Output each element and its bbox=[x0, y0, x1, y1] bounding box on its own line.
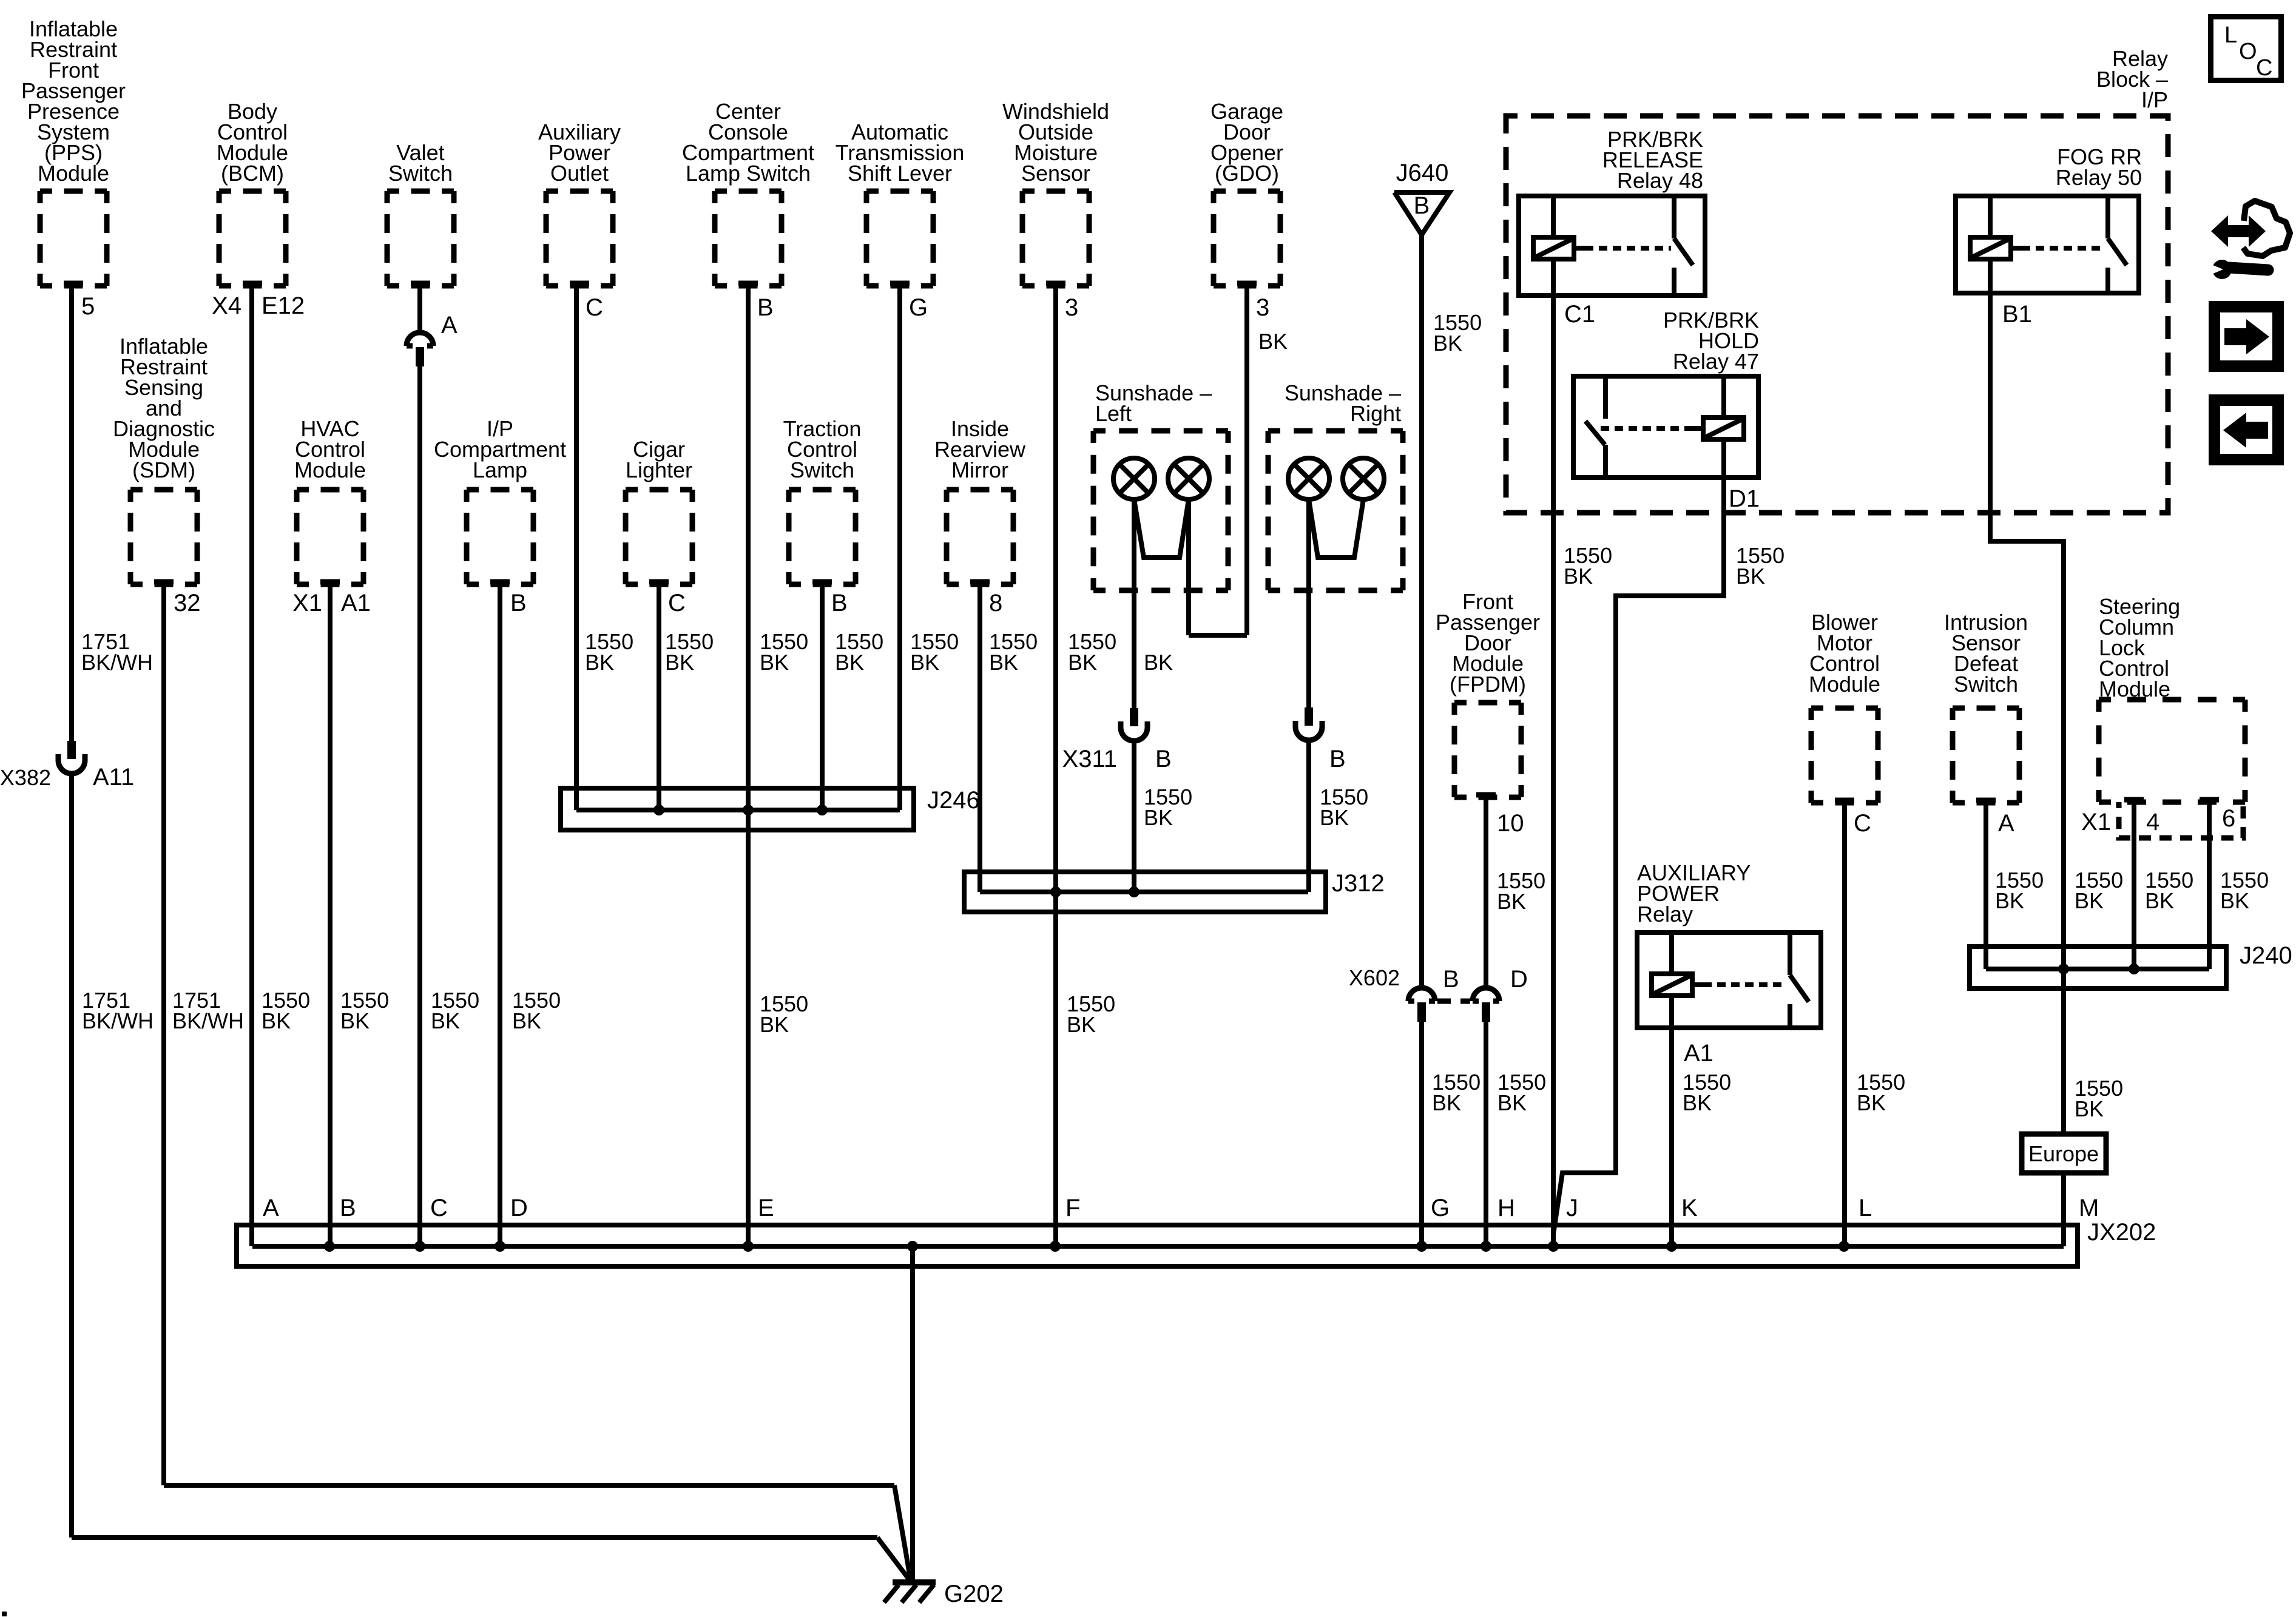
svg-text:X1: X1 bbox=[292, 590, 322, 616]
svg-text:BK: BK bbox=[340, 1008, 370, 1033]
svg-text:X1: X1 bbox=[2081, 809, 2111, 836]
svg-text:BK: BK bbox=[1736, 564, 1765, 589]
svg-text:L: L bbox=[1859, 1195, 1872, 1221]
svg-text:X382: X382 bbox=[0, 765, 51, 790]
svg-text:Relay: Relay bbox=[1637, 902, 1693, 927]
svg-text:Relay 48: Relay 48 bbox=[1617, 168, 1703, 193]
svg-text:BK: BK bbox=[431, 1008, 460, 1033]
svg-text:Lighter: Lighter bbox=[626, 457, 692, 482]
svg-text:O: O bbox=[2239, 39, 2257, 64]
svg-text:BK: BK bbox=[1144, 650, 1173, 675]
svg-text:G: G bbox=[909, 294, 928, 321]
svg-text:BK: BK bbox=[665, 650, 694, 675]
svg-text:5: 5 bbox=[81, 293, 95, 320]
svg-text:A: A bbox=[263, 1195, 279, 1221]
svg-text:Switch: Switch bbox=[790, 457, 854, 482]
svg-text:Switch: Switch bbox=[1954, 672, 2018, 697]
svg-text:6: 6 bbox=[2222, 805, 2235, 832]
svg-text:C: C bbox=[2256, 55, 2272, 81]
svg-text:B: B bbox=[1443, 966, 1459, 993]
svg-text:Lamp Switch: Lamp Switch bbox=[686, 161, 811, 186]
svg-text:BK: BK bbox=[1432, 1090, 1461, 1115]
svg-text:E12: E12 bbox=[262, 292, 305, 319]
svg-text:G202: G202 bbox=[944, 1581, 1004, 1607]
svg-text:(BCM): (BCM) bbox=[221, 161, 284, 186]
svg-text:B: B bbox=[831, 590, 848, 616]
svg-text:B: B bbox=[340, 1195, 356, 1221]
svg-text:BK/WH: BK/WH bbox=[82, 1008, 154, 1033]
svg-text:B: B bbox=[1155, 746, 1172, 772]
svg-text:BK: BK bbox=[1067, 1012, 1096, 1037]
svg-text:(GDO): (GDO) bbox=[1215, 161, 1279, 186]
svg-text:C: C bbox=[1854, 810, 1871, 837]
svg-text:Left: Left bbox=[1095, 401, 1132, 426]
svg-text:10: 10 bbox=[1497, 810, 1524, 837]
svg-text:Module: Module bbox=[38, 161, 109, 186]
svg-text:BK: BK bbox=[1857, 1090, 1886, 1115]
svg-text:Lamp: Lamp bbox=[473, 457, 527, 482]
svg-text:BK: BK bbox=[1995, 888, 2024, 913]
svg-text:C: C bbox=[668, 590, 686, 616]
svg-text:X602: X602 bbox=[1349, 965, 1400, 990]
svg-text:Outlet: Outlet bbox=[550, 161, 609, 186]
svg-text:JX202: JX202 bbox=[2087, 1219, 2156, 1246]
svg-text:J246: J246 bbox=[927, 787, 980, 814]
svg-text:J: J bbox=[1566, 1195, 1578, 1221]
svg-text:Switch: Switch bbox=[388, 161, 453, 186]
svg-text:X311: X311 bbox=[1062, 746, 1117, 772]
svg-text:G: G bbox=[1431, 1195, 1450, 1221]
svg-text:Module: Module bbox=[294, 457, 366, 482]
svg-text:Relay 47: Relay 47 bbox=[1673, 349, 1759, 374]
svg-text:BK: BK bbox=[2075, 888, 2104, 913]
svg-text:B: B bbox=[510, 590, 527, 616]
svg-text:BK: BK bbox=[989, 650, 1018, 675]
svg-text:C: C bbox=[430, 1195, 448, 1221]
svg-text:Mirror: Mirror bbox=[951, 457, 1008, 482]
svg-text:(FPDM): (FPDM) bbox=[1450, 672, 1526, 697]
svg-text:BK: BK bbox=[585, 650, 614, 675]
svg-text:C1: C1 bbox=[1564, 301, 1595, 328]
svg-text:BK: BK bbox=[835, 650, 864, 675]
svg-text:BK: BK bbox=[262, 1008, 291, 1033]
svg-text:X4: X4 bbox=[212, 292, 241, 319]
svg-text:BK: BK bbox=[2145, 888, 2174, 913]
svg-text:B: B bbox=[1329, 746, 1346, 772]
svg-text:B: B bbox=[757, 294, 774, 321]
svg-text:Sensor: Sensor bbox=[1021, 161, 1090, 186]
svg-text:BK: BK bbox=[2220, 888, 2249, 913]
svg-text:BK: BK bbox=[1320, 805, 1349, 830]
svg-text:A: A bbox=[1998, 810, 2014, 837]
svg-text:D: D bbox=[510, 1195, 528, 1221]
svg-text:BK: BK bbox=[1144, 805, 1173, 830]
svg-text:BK: BK bbox=[1497, 1090, 1527, 1115]
svg-text:BK: BK bbox=[1433, 331, 1462, 356]
svg-text:BK: BK bbox=[1683, 1090, 1712, 1115]
svg-text:Module: Module bbox=[2099, 677, 2170, 701]
svg-text:D1: D1 bbox=[1729, 485, 1760, 512]
svg-text:BK: BK bbox=[1564, 564, 1593, 589]
svg-text:C: C bbox=[586, 294, 603, 321]
svg-text:B1: B1 bbox=[2002, 301, 2032, 328]
svg-text:BK: BK bbox=[910, 650, 939, 675]
svg-text:L: L bbox=[2224, 22, 2237, 48]
svg-text:H: H bbox=[1497, 1195, 1515, 1221]
svg-text:A1: A1 bbox=[1684, 1040, 1714, 1067]
svg-text:A11: A11 bbox=[93, 764, 134, 791]
svg-text:BK: BK bbox=[512, 1008, 541, 1033]
svg-text:E: E bbox=[758, 1195, 774, 1221]
svg-text:BK: BK bbox=[1068, 650, 1097, 675]
svg-text:D: D bbox=[1510, 966, 1528, 993]
svg-text:F: F bbox=[1065, 1195, 1080, 1221]
svg-text:A1: A1 bbox=[341, 590, 371, 616]
svg-text:BK: BK bbox=[1258, 329, 1288, 354]
svg-text:BK/WH: BK/WH bbox=[172, 1008, 244, 1033]
svg-text:I/P: I/P bbox=[2141, 87, 2168, 112]
svg-text:M: M bbox=[2079, 1195, 2099, 1221]
svg-text:B: B bbox=[1414, 192, 1430, 219]
svg-text:J240: J240 bbox=[2240, 942, 2292, 969]
svg-text:BK: BK bbox=[1497, 889, 1526, 914]
svg-text:J640: J640 bbox=[1396, 160, 1449, 186]
svg-text:Europe: Europe bbox=[2028, 1141, 2099, 1166]
svg-text:BK: BK bbox=[760, 1012, 789, 1037]
svg-text:K: K bbox=[1681, 1195, 1698, 1221]
svg-text:J312: J312 bbox=[1332, 870, 1385, 897]
svg-text:Module: Module bbox=[1809, 672, 1880, 697]
svg-text:3: 3 bbox=[1256, 294, 1269, 321]
svg-text:BK/WH: BK/WH bbox=[81, 650, 153, 675]
svg-text:4: 4 bbox=[2146, 809, 2159, 836]
svg-text:Relay 50: Relay 50 bbox=[2056, 165, 2142, 190]
svg-text:BK: BK bbox=[2075, 1096, 2104, 1121]
svg-text:Shift Lever: Shift Lever bbox=[848, 161, 952, 186]
svg-text:3: 3 bbox=[1065, 294, 1078, 321]
svg-text:A: A bbox=[441, 312, 458, 339]
svg-text:8: 8 bbox=[989, 590, 1002, 616]
svg-text:(SDM): (SDM) bbox=[132, 457, 195, 482]
svg-text:BK: BK bbox=[760, 650, 789, 675]
svg-text:32: 32 bbox=[174, 590, 201, 616]
svg-text:Right: Right bbox=[1350, 401, 1401, 426]
